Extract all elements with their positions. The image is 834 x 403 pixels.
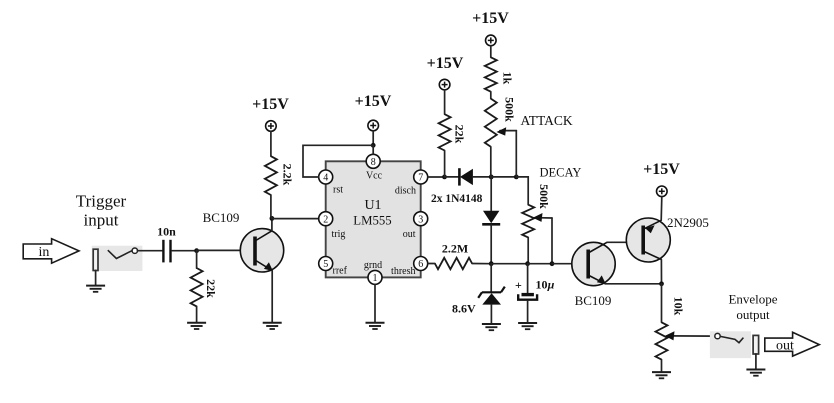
svg-text:2.2k: 2.2k <box>280 164 294 186</box>
resistor 22k (input pulldown) <box>191 268 218 306</box>
wire Q2 collector to Q3 base <box>607 241 643 243</box>
potentiometer 10k (output level) <box>656 297 686 360</box>
svg-text:LM555: LM555 <box>353 214 391 228</box>
svg-text:8.6V: 8.6V <box>452 302 476 316</box>
svg-text:U1: U1 <box>364 198 381 213</box>
ground (zener) <box>482 324 501 330</box>
wire node C to pin 4 <box>303 145 373 177</box>
svg-text:2N2905: 2N2905 <box>667 215 709 230</box>
svg-text:+15V: +15V <box>355 93 392 110</box>
potentiometer ATTACK 500k <box>485 97 573 147</box>
svg-text:1: 1 <box>373 273 378 284</box>
wire 1k to attack pot <box>490 92 492 99</box>
svg-text:5: 5 <box>323 259 328 270</box>
svg-text:10n: 10n <box>157 225 176 239</box>
pin 8 Vcc <box>366 154 383 181</box>
wire 2.2M to rail <box>472 263 491 265</box>
wire Q3 collector to node J <box>660 260 662 284</box>
svg-text:output: output <box>736 307 770 322</box>
svg-text:10k: 10k <box>671 297 685 316</box>
node B (R2.2k / Q1 collector / pin2) <box>270 216 275 221</box>
svg-text:input: input <box>84 211 119 230</box>
svg-text:+: + <box>515 278 522 292</box>
wire +15V to 1k <box>490 46 492 58</box>
ground (22k) <box>187 323 206 329</box>
capacitor C1 10n <box>157 225 176 263</box>
resistor 22k (discharge pullup) <box>439 114 467 150</box>
diode D2 1N4148 (vertical, cathode down) <box>482 211 500 225</box>
ground (C2) <box>518 323 537 329</box>
pin 5 rref <box>319 257 348 277</box>
wire node D to D1 <box>445 176 460 178</box>
input jack J1 (gray pad, sleeve, switch lever, tip contact) <box>92 246 143 271</box>
op-amp/timer U1 LM555 body <box>326 161 421 277</box>
pin 1 grnd <box>364 260 382 284</box>
wire zener to ground <box>490 305 492 324</box>
svg-text:out: out <box>776 339 794 354</box>
node H (cap 10u / decay bottom) <box>525 261 530 266</box>
svg-text:+15V: +15V <box>643 161 680 178</box>
svg-text:disch: disch <box>395 186 416 197</box>
svg-text:trig: trig <box>332 229 346 240</box>
wire node F to decay pot top <box>516 177 528 205</box>
svg-text:BC109: BC109 <box>203 210 240 225</box>
svg-text:rref: rref <box>333 266 348 277</box>
node A (C1 / R22k / Q1 base) <box>194 248 199 253</box>
output arrow "out" <box>765 332 820 356</box>
wire pin 7 to node D <box>428 176 445 178</box>
wire node I to Q2 base <box>552 263 588 265</box>
wire node A to 22k <box>196 251 198 269</box>
node G (zener / D2 / rail) <box>489 261 494 266</box>
wire C2 to ground <box>527 301 529 323</box>
wire +15V to 2.2k <box>270 131 272 156</box>
wire D1 to node E <box>473 176 491 178</box>
wire jack sleeve to ground <box>95 271 97 286</box>
transistor Q2 BC109 <box>572 242 615 308</box>
node I (decay wiper return) <box>550 261 555 266</box>
output jack J2 (gray pad, tip contact, lever, sleeve) <box>710 331 759 358</box>
svg-text:8: 8 <box>371 157 376 168</box>
wire 22k to ground <box>196 306 198 322</box>
svg-text:500k: 500k <box>537 184 551 209</box>
svg-text:+15V: +15V <box>252 96 289 113</box>
wire Q2 emitter to node J <box>605 283 661 285</box>
svg-text:BC109: BC109 <box>575 293 612 308</box>
wire 10k pot bottom to ground <box>661 360 663 372</box>
ground (U1 pin 1) <box>366 323 385 329</box>
power +15V (2.2k branch) <box>252 96 289 131</box>
capacitor C2 10u (polarized) <box>515 278 555 300</box>
wire node E to D2 <box>490 177 492 211</box>
svg-text:22k: 22k <box>204 279 218 298</box>
wire decay pot bottom to node H <box>527 237 529 263</box>
wire pin 1 to ground <box>374 284 376 322</box>
wire 22k to node D <box>444 151 446 177</box>
svg-text:Vcc: Vcc <box>366 171 383 182</box>
svg-text:grnd: grnd <box>364 260 382 271</box>
pin 2 trig <box>319 212 346 240</box>
diode D1 1N4148 (horizontal, cathode left) <box>431 168 483 205</box>
node C (Vcc / rst tie) <box>371 143 376 148</box>
svg-text:22k: 22k <box>452 125 466 144</box>
power +15V (attack branch) <box>472 10 509 46</box>
svg-text:7: 7 <box>418 173 423 184</box>
node D (pin7 / 22k / D1) <box>442 175 447 180</box>
ground (input jack) <box>86 286 105 292</box>
resistor 2.2M <box>435 242 472 270</box>
decay pot wiper arrow <box>533 213 552 222</box>
pin 4 rst <box>319 170 344 196</box>
wire jack tip to C1 <box>138 250 162 252</box>
svg-text:thresh: thresh <box>391 266 415 277</box>
svg-text:ATTACK: ATTACK <box>521 113 573 128</box>
svg-text:in: in <box>39 245 50 260</box>
wire D2 to node G <box>490 224 492 263</box>
wire node C to pin 8 <box>372 145 374 154</box>
power +15V (U1 Vcc) <box>355 93 392 131</box>
attack pot wiper arrow <box>497 127 517 135</box>
transistor Q1 BC109 <box>203 210 284 272</box>
wire C1 to node A <box>172 250 197 252</box>
power +15V (22k pullup) <box>427 55 464 90</box>
svg-text:Trigger: Trigger <box>76 192 127 211</box>
svg-text:10µ: 10µ <box>536 278 555 292</box>
resistor 1k <box>485 57 514 91</box>
svg-text:+15V: +15V <box>472 10 509 27</box>
ground (10k pot) <box>652 372 671 378</box>
ground (Q1 emitter) <box>263 323 282 329</box>
svg-text:2x 1N4148: 2x 1N4148 <box>431 193 483 205</box>
wire attack wiper to node F <box>515 131 517 177</box>
svg-text:2: 2 <box>323 214 328 225</box>
wire 2.2k to node B <box>270 195 272 217</box>
10k pot wiper arrow <box>665 331 715 340</box>
power +15V (Q3 emitter) <box>643 161 680 197</box>
pin 3 out <box>403 212 428 240</box>
pin 6 thresh <box>391 257 428 278</box>
input arrow "in" <box>23 239 79 264</box>
wire jack sleeve to ground <box>755 354 757 369</box>
wire node H to C2 <box>527 264 529 293</box>
wire Q1 emitter to ground <box>271 271 273 323</box>
wire +15V to Q3 emitter <box>660 197 663 221</box>
ground (output jack) <box>746 370 765 376</box>
wire decay wiper to node I <box>551 218 553 264</box>
wire node J to 10k pot <box>661 284 663 323</box>
potentiometer DECAY 500k <box>522 166 581 238</box>
wire node E to node F <box>491 176 516 178</box>
svg-text:3: 3 <box>418 214 423 225</box>
wire pin 6 to 2.2M <box>428 263 435 265</box>
svg-text:1k: 1k <box>500 72 514 85</box>
wire node G to zener <box>490 264 492 292</box>
resistor 2.2k <box>265 156 294 195</box>
svg-text:4: 4 <box>323 173 328 184</box>
label "Trigger input" <box>76 192 127 230</box>
svg-text:rst: rst <box>333 185 343 196</box>
svg-text:out: out <box>403 229 416 240</box>
wire +15V to node C <box>372 131 374 146</box>
svg-text:500k: 500k <box>502 97 516 122</box>
zener diode 8.6V (cathode up) <box>452 287 505 316</box>
label "Envelope output" <box>728 292 777 323</box>
svg-text:DECAY: DECAY <box>540 166 582 180</box>
svg-text:2.2M: 2.2M <box>442 242 468 256</box>
node F (attack wiper return / decay top) <box>514 175 519 180</box>
node J (Q2 emitter / Q3 collector / 10k pot) <box>659 281 664 286</box>
pin 7 disch <box>395 170 428 197</box>
svg-text:+15V: +15V <box>427 55 464 72</box>
wire node A to Q1 base <box>197 249 255 251</box>
svg-text:Envelope: Envelope <box>728 292 777 307</box>
wire attack pot bottom to node E <box>490 147 492 177</box>
svg-text:6: 6 <box>418 259 423 270</box>
node E (D1 / D2 / attack pot bottom) <box>489 175 494 180</box>
wire +15V to 22k <box>444 90 446 114</box>
transistor Q3 2N2905 (PNP) <box>626 215 709 262</box>
wire node G to node H <box>491 263 527 265</box>
wire node B to pin 2 <box>272 218 319 220</box>
wire node H to node I <box>528 263 552 265</box>
wire Q1 collector up to node B <box>271 218 273 230</box>
